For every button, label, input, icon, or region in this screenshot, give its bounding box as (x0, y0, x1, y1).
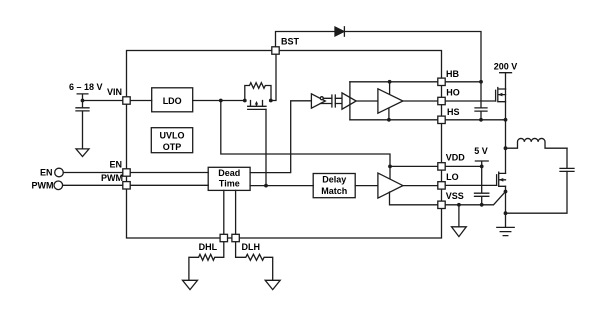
svg-text:VDD: VDD (446, 153, 466, 163)
ground CIN (76, 149, 89, 157)
wire RX to HO driver (356, 100, 378, 102)
wire HS pin out (445, 119, 505, 121)
svg-text:UVLO: UVLO (159, 131, 184, 141)
wire differential pair left (321, 98, 332, 103)
svg-text:HB: HB (446, 69, 459, 79)
wire EN to Dead Time (130, 172, 208, 174)
wire VSS rail (390, 192, 438, 205)
buffer TX level shifter (311, 94, 325, 108)
transistor bootstrap PMOS (248, 101, 266, 110)
pin HO (438, 97, 445, 104)
wire Q1 source to HS (505, 89, 507, 120)
svg-text:Time: Time (219, 178, 240, 188)
capacitor CIN (76, 101, 89, 149)
block Dead Time (208, 167, 250, 190)
svg-text:EN: EN (40, 168, 53, 178)
wire HS rail (350, 119, 438, 121)
pin EN (123, 169, 130, 176)
junction Q2 source node (504, 190, 508, 194)
svg-text:VIN: VIN (107, 87, 122, 97)
svg-text:VSS: VSS (446, 191, 464, 201)
junction VSS cap node (480, 203, 484, 207)
junction LDO output (219, 99, 223, 103)
driver HO (378, 89, 403, 113)
wire VDD rail (390, 165, 438, 167)
IC boundary (127, 51, 442, 239)
pin VDD (438, 163, 445, 170)
capacitor VDD bypass (475, 166, 489, 204)
supply 200 V bar (500, 73, 512, 89)
svg-text:Match: Match (321, 186, 347, 196)
junction VDD 5V node (480, 165, 484, 169)
junction HB rail (388, 80, 392, 84)
arrow Q1 body (498, 93, 502, 97)
supply 5 V bar (475, 161, 488, 166)
junction bootstrap right (269, 99, 273, 103)
ground DLH (265, 280, 280, 289)
wire Dead Time LO output (250, 185, 313, 187)
svg-text:PWM: PWM (32, 181, 54, 191)
wire Q2 source down (505, 186, 507, 213)
inductor L (506, 138, 568, 148)
diode bootstrap (335, 27, 344, 36)
svg-text:EN: EN (109, 160, 122, 170)
pin VSS (438, 201, 445, 208)
resistor RDHL (189, 242, 224, 281)
wire PWM input (63, 184, 123, 186)
block LDO (152, 88, 193, 112)
svg-text:HS: HS (447, 107, 460, 117)
pin HS (438, 116, 445, 123)
junction switch node (504, 146, 508, 150)
supply 6-18 V input bar (77, 94, 88, 101)
wire diode to HB node (344, 32, 481, 82)
buffer RX level shifter (342, 93, 356, 109)
block UVLO OTP (151, 128, 192, 153)
arrow Q2 body (499, 178, 503, 182)
pin HB (438, 78, 445, 85)
svg-text:200 V: 200 V (494, 62, 518, 72)
wire HO driver bottom bias (388, 108, 390, 120)
capacitor output (560, 148, 574, 171)
junction VDD rail (388, 165, 392, 169)
wire HB rail (350, 81, 438, 83)
resistor RDLH (236, 242, 273, 281)
junction HS FET node (504, 118, 508, 122)
wire VDD pin to 5V node (445, 165, 482, 167)
wire PMOS gate to LO path (265, 109, 267, 185)
block Delay Match (313, 174, 355, 198)
wire output return (506, 171, 568, 213)
junction bootstrap left (243, 99, 247, 103)
wire VIN input (83, 100, 123, 102)
wire LDO to VDD rail (221, 101, 390, 167)
svg-text:OTP: OTP (163, 142, 182, 152)
transistor Q2 low-side FET (497, 172, 506, 186)
pin LO (438, 182, 445, 189)
pin DLH (232, 234, 239, 241)
bubble TX inverted output (320, 97, 323, 100)
pin VIN (123, 97, 130, 104)
wire BST to diode (276, 32, 336, 47)
driver LO (378, 173, 403, 198)
transistor Q1 high-side FET (496, 88, 506, 102)
wire HO to pin (403, 100, 438, 102)
wire LO pin to gate (445, 184, 496, 186)
wire HB pin out (445, 81, 481, 83)
pin PWM (123, 182, 130, 189)
svg-text:BST: BST (281, 36, 300, 46)
terminal EN (55, 168, 64, 177)
wire differential pair right (335, 98, 342, 103)
wire LO to pin (403, 185, 438, 187)
svg-text:DLH: DLH (242, 242, 261, 252)
wire HO driver top bias (389, 82, 391, 95)
resistor bootstrap switch (245, 83, 271, 101)
svg-text:6 – 18 V: 6 – 18 V (69, 82, 103, 92)
capacitor bootstrap (475, 82, 487, 120)
svg-text:Delay: Delay (322, 174, 346, 184)
wire DHL from Dead Time (223, 190, 225, 234)
wire bootstrap to BST (271, 54, 276, 100)
svg-text:HO: HO (446, 87, 460, 97)
wire PWM to Dead Time (130, 184, 208, 186)
wire Delay Match to LO driver (355, 185, 378, 187)
svg-text:DHL: DHL (199, 242, 218, 252)
svg-text:PWM: PWM (101, 173, 123, 183)
ground VSS (458, 205, 460, 227)
junction VSS ground tap (457, 203, 461, 207)
svg-text:LDO: LDO (163, 96, 182, 106)
svg-text:5 V: 5 V (474, 146, 488, 156)
pin DHL (220, 234, 227, 241)
pin BST (272, 47, 279, 54)
junction power ground node (504, 211, 508, 215)
capacitor isolation plates (332, 95, 335, 107)
wire Dead Time HO output (250, 101, 311, 173)
wire VIN to LDO (130, 100, 152, 102)
svg-text:LO: LO (446, 172, 459, 182)
wire VSS pin out (445, 192, 505, 205)
arrow bootstrap PMOS body (255, 101, 258, 105)
wire LO driver top bias (389, 166, 391, 179)
terminal PWM (54, 181, 63, 190)
junction LO path gate tap (264, 184, 268, 188)
junction HB node (479, 80, 483, 84)
svg-text:Dead: Dead (218, 168, 240, 178)
junction VIN cap tap (81, 99, 85, 103)
ground power earth (497, 213, 514, 235)
wire HO pin to gate (445, 100, 495, 102)
wire DLH from Dead Time (235, 190, 237, 234)
wire EN input (63, 172, 123, 174)
ground DHL (183, 280, 198, 289)
junction HS rail (387, 118, 391, 122)
wire floating domain bracket (349, 82, 351, 120)
wire LDO output (193, 100, 245, 102)
wire switch node (505, 120, 507, 174)
junction HS cap node (479, 118, 483, 122)
